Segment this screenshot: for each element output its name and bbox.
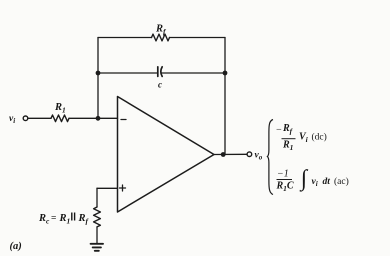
wire capacitor branch left <box>98 72 158 74</box>
resistor R1 <box>51 115 69 122</box>
svg-text:(a): (a) <box>10 241 22 252</box>
wire right feedback vertical <box>224 38 226 155</box>
svg-text:−: − <box>276 125 283 136</box>
wire Rc to ground <box>96 227 98 244</box>
wire top feedback left segment <box>98 37 152 39</box>
wire left feedback vertical <box>97 38 99 119</box>
wire vi terminal to R1 <box>28 117 51 119</box>
wire top feedback right segment <box>170 37 226 39</box>
node output junction <box>221 152 226 157</box>
equation dc gain <box>276 123 327 152</box>
svg-text:=: = <box>51 214 56 224</box>
wire R1 to op-amp minus input <box>69 117 118 119</box>
equation ac integrator <box>276 166 349 194</box>
resistor Rf <box>152 34 170 41</box>
svg-text:(ac): (ac) <box>334 176 349 187</box>
op-amp U1 triangle <box>118 97 215 213</box>
op-amp minus input sign <box>121 119 126 121</box>
svg-text:(dc): (dc) <box>312 132 327 143</box>
wire op-amp output <box>214 153 247 155</box>
node junction capacitor-left <box>96 71 101 76</box>
svg-text:−1: −1 <box>277 169 289 180</box>
svg-text:c: c <box>158 80 162 90</box>
brace for output equations <box>267 120 273 195</box>
resistor Rc vertical <box>94 207 101 227</box>
op-amp plus input sign <box>120 185 126 191</box>
node vi input terminal <box>23 116 28 121</box>
wire capacitor branch right <box>161 72 225 74</box>
node junction capacitor-right <box>223 71 228 76</box>
svg-text:dt: dt <box>323 177 331 187</box>
wire plus input down to Rc <box>96 188 98 207</box>
label Rc = R1 parallel Rf <box>38 213 90 226</box>
capacitor C <box>158 67 162 77</box>
wire non-inverting input stub <box>97 187 118 189</box>
ground <box>91 244 103 251</box>
node vo output terminal <box>247 152 252 157</box>
node A junction at inverting input <box>96 116 101 121</box>
